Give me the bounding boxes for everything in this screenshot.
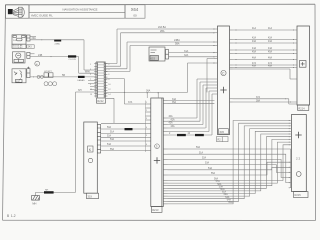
connector 653B (lower central) — [151, 98, 164, 207]
svg-text:R215: R215 — [295, 193, 302, 197]
wire 222-2 — [30, 57, 96, 74]
connector 645 left pin stubs — [215, 29, 218, 63]
wires 653B top to 645 — [168, 101, 215, 104]
splice 2 — [68, 55, 76, 57]
svg-text:4: 4 — [146, 127, 147, 129]
connector 247 label box — [298, 105, 309, 110]
svg-text:5: 5 — [90, 74, 91, 76]
svg-text:59A: 59A — [219, 185, 224, 188]
connector R212 pin labels — [90, 64, 111, 96]
svg-text:5: 5 — [146, 135, 147, 137]
connector R212 (ladder) — [96, 62, 106, 98]
splice 7 — [125, 128, 133, 130]
svg-text:48A: 48A — [252, 65, 257, 68]
svg-text:24B: 24B — [38, 54, 43, 57]
svg-text:MH: MH — [32, 202, 36, 206]
svg-text:36A: 36A — [146, 90, 151, 93]
connector R212 rungs — [97, 65, 104, 95]
fan wire labels — [196, 146, 233, 204]
svg-text:43A: 43A — [171, 125, 176, 128]
svg-text:41A: 41A — [252, 27, 257, 30]
svg-text:51A: 51A — [110, 131, 115, 134]
header harness icon — [6, 5, 30, 18]
connector 653B right pin ticks upper — [163, 101, 167, 135]
svg-text:60A: 60A — [220, 188, 225, 191]
component 319 (K unit) — [84, 122, 98, 193]
svg-text:55A: 55A — [211, 172, 216, 175]
svg-text:13: 13 — [90, 94, 92, 96]
svg-text:R213: R213 — [152, 208, 159, 212]
svg-text:54A: 54A — [208, 167, 213, 170]
inline connector pair — [37, 75, 40, 78]
splice 1 — [54, 40, 61, 42]
connector 261B circle — [296, 172, 301, 177]
link R212 bottom to 653B — [101, 98, 146, 123]
svg-text:X64: X64 — [131, 7, 139, 12]
svg-text:58A: 58A — [217, 183, 222, 186]
ground MH — [32, 196, 40, 201]
connector 645 right pin stubs — [230, 30, 233, 102]
svg-text:2BA: 2BA — [160, 30, 165, 33]
svg-text:B 1-2: B 1-2 — [7, 214, 16, 218]
splice 3 — [78, 76, 85, 78]
corner wire B — [106, 33, 215, 66]
svg-text:50A: 50A — [107, 126, 112, 129]
component 319 K symbol — [88, 146, 93, 152]
svg-text:NH: NH — [45, 189, 49, 191]
261B pin dots — [289, 120, 290, 188]
svg-text:63A: 63A — [225, 196, 230, 199]
svg-text:9: 9 — [90, 84, 91, 86]
svg-text:31A: 31A — [184, 50, 189, 53]
R212 left stub labels — [88, 81, 96, 90]
svg-text:243: 243 — [28, 46, 33, 49]
wires 319 to 653B — [101, 129, 146, 151]
junction stubs on wire above 653B — [147, 92, 158, 98]
svg-text:46A: 46A — [252, 57, 257, 60]
svg-text:52A: 52A — [107, 135, 112, 138]
wire 222-1 stub — [30, 53, 35, 55]
corner wire D — [106, 46, 215, 72]
svg-text:653: 653 — [151, 56, 156, 60]
svg-text:35A: 35A — [172, 101, 177, 104]
svg-text:57A: 57A — [216, 180, 221, 183]
svg-text:41A: 41A — [171, 118, 176, 121]
svg-text:20A: 20A — [32, 37, 37, 40]
svg-text:42A: 42A — [169, 122, 174, 125]
svg-text:51A: 51A — [199, 151, 204, 154]
connector 653B plus — [154, 157, 160, 163]
svg-text:1: 1 — [90, 64, 91, 66]
branch wire to connector 653B — [106, 79, 146, 104]
connector 261B (lower right) — [292, 115, 307, 192]
wire 645 pin to 247 via x290 — [233, 69, 298, 79]
wires 645 to 247 — [233, 30, 298, 68]
svg-text:43A: 43A — [268, 40, 273, 43]
svg-text:38A: 38A — [256, 99, 261, 102]
component 331 pin bracket — [27, 67, 30, 78]
svg-text:42A: 42A — [252, 37, 257, 40]
corner wire C — [106, 42, 215, 69]
connector 645 label box below — [217, 137, 229, 142]
svg-text:45A: 45A — [268, 51, 273, 54]
svg-text:62A: 62A — [224, 193, 229, 196]
symbol E (circled) — [35, 61, 40, 66]
connector 645 plus — [220, 87, 226, 93]
svg-text:2: 2 — [146, 110, 147, 112]
component 319 label box — [87, 193, 99, 198]
svg-text:44A: 44A — [252, 47, 257, 50]
svg-text:10: 10 — [108, 84, 110, 86]
svg-text:00: 00 — [133, 13, 137, 17]
connector 261B plus — [295, 132, 301, 138]
svg-text:8: 8 — [108, 79, 109, 81]
svg-text:52A: 52A — [202, 157, 207, 160]
svg-text:42A: 42A — [268, 37, 273, 40]
connector 645 (central bar) — [218, 26, 230, 135]
svg-text:64A: 64A — [227, 198, 232, 201]
svg-text:53A: 53A — [110, 138, 115, 141]
wire 261-2 — [30, 40, 96, 70]
connector view circles — [44, 82, 57, 86]
svg-text:37A: 37A — [256, 96, 261, 99]
component 261 pin bracket — [27, 35, 30, 41]
wire to ground from R212 — [36, 92, 96, 196]
wire 653-1 — [169, 52, 215, 54]
svg-text:NH: NH — [78, 89, 82, 92]
header X64 box — [125, 5, 145, 18]
svg-text:1: 1 — [146, 102, 147, 104]
component 331 switch unit — [12, 69, 26, 83]
splice 4 (ground splice) — [44, 191, 54, 193]
component 319 pin bracket — [97, 125, 100, 154]
connector 653B label box — [151, 207, 162, 213]
svg-text:H7 BP7: H7 BP7 — [44, 71, 52, 73]
svg-text:55A: 55A — [110, 148, 115, 151]
branch wire up x207 — [207, 59, 215, 93]
connector blocks H7 — [44, 73, 53, 78]
svg-text:20A BA: 20A BA — [158, 26, 166, 29]
splice 6 — [195, 134, 204, 136]
svg-text:319: 319 — [88, 194, 93, 198]
svg-text:50A: 50A — [196, 146, 201, 149]
svg-text:CARAD: CARAD — [77, 79, 85, 82]
svg-text:34A: 34A — [172, 98, 177, 101]
component 261 label box 243 — [27, 45, 34, 49]
svg-text:R212: R212 — [97, 99, 104, 103]
component 222 clock — [13, 52, 26, 63]
connector 653B circle — [155, 144, 160, 149]
svg-text:2 2: 2 2 — [296, 156, 301, 160]
svg-text:41A: 41A — [268, 27, 273, 30]
wire 331-1 — [30, 76, 96, 78]
svg-text:45A: 45A — [252, 51, 257, 54]
component 222 pin bracket — [27, 52, 30, 58]
svg-text:56A: 56A — [214, 178, 219, 181]
svg-text:44A: 44A — [268, 47, 273, 50]
svg-text:65A: 65A — [228, 201, 233, 204]
corner wire A to connector 645 — [106, 29, 215, 64]
wires 645 to 247 lower — [233, 99, 298, 104]
riser wires 645 to 653B — [168, 79, 218, 135]
svg-text:54A: 54A — [107, 143, 112, 146]
svg-text:645: 645 — [220, 130, 225, 134]
svg-text:3: 3 — [146, 118, 147, 120]
connector 247 boxed plus — [299, 61, 306, 68]
splice 5 — [177, 134, 186, 136]
component 319 circle — [88, 158, 92, 162]
svg-text:CLOCK: CLOCK — [69, 59, 77, 61]
component 261 display unit — [12, 35, 26, 49]
svg-text:14: 14 — [108, 94, 110, 96]
svg-text:53A: 53A — [205, 162, 210, 165]
svg-text:3: 3 — [90, 69, 91, 71]
header title box — [29, 5, 125, 18]
svg-text:R214: R214 — [298, 106, 305, 110]
long wire from R212 pin 14 — [106, 63, 215, 92]
connector R212 label box — [97, 98, 106, 103]
svg-text:5B: 5B — [62, 74, 65, 77]
fan wires 653B to 261B group A — [168, 149, 292, 188]
svg-text:6: 6 — [108, 74, 109, 76]
module 653 — [149, 47, 165, 61]
wire 653-2 — [169, 56, 215, 58]
653B fan pin ticks — [163, 149, 167, 204]
fan wires 653B to 261B group B — [168, 121, 292, 204]
connector 261B label box — [294, 192, 309, 198]
svg-text:5BA: 5BA — [175, 43, 180, 46]
svg-text:48A: 48A — [268, 65, 273, 68]
connector 645 symbol C — [221, 70, 226, 75]
connector 653B left pin labels — [146, 102, 147, 146]
svg-text:37A: 37A — [128, 101, 133, 104]
svg-text:32A: 32A — [184, 54, 189, 57]
connector 247 (upper right) — [297, 26, 310, 105]
svg-text:NAVIGATION ASSISTANCE: NAVIGATION ASSISTANCE — [63, 8, 98, 12]
svg-text:AVEC GUIDE FIL: AVEC GUIDE FIL — [31, 14, 53, 18]
connector 653B left interface line — [145, 101, 147, 153]
connector 645 label — [219, 129, 229, 134]
svg-text:43A: 43A — [252, 40, 257, 43]
svg-text:61A: 61A — [222, 191, 227, 194]
svg-text:4: 4 — [108, 69, 109, 71]
connector 653B left pin ticks — [146, 104, 151, 151]
svg-text:249A: 249A — [55, 42, 61, 45]
module 653 pin bracket — [166, 50, 169, 60]
svg-text:6: 6 — [146, 144, 147, 146]
svg-text:12: 12 — [108, 89, 110, 91]
svg-text:222 236 BC: 222 236 BC — [13, 47, 24, 49]
svg-text:46A: 46A — [268, 57, 273, 60]
wire 261-1 stub — [30, 36, 36, 38]
svg-text:40A: 40A — [169, 115, 174, 118]
svg-text:2: 2 — [108, 64, 109, 66]
